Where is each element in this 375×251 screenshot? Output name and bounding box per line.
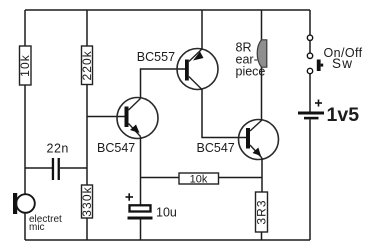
svg-text:10k: 10k [18, 54, 32, 77]
wire Q1 base [87, 116, 125, 118]
wire Q3 emitter down [261, 158, 263, 192]
svg-text:BC557: BC557 [137, 50, 175, 64]
svg-text:BC547: BC547 [197, 141, 235, 155]
wire switch top [309, 10, 311, 35]
transistor Q1 BC547 [117, 98, 158, 139]
svg-text:mic: mic [29, 222, 45, 233]
wire bottom rail [25, 239, 310, 241]
wire 10k feedback left [141, 177, 180, 179]
electret mic [13, 193, 35, 214]
label electret mic [29, 214, 62, 233]
wire Q2 collector down and to Q3 base [202, 90, 246, 138]
capacitor C1 22n [52, 158, 60, 180]
svg-text:220k: 220k [80, 50, 94, 80]
resistor R2 220k [80, 46, 94, 85]
svg-text:1v5: 1v5 [327, 104, 360, 126]
svg-text:3R3: 3R3 [254, 199, 268, 224]
resistor R1 10k [18, 46, 32, 85]
transistor Q2 BC557 [177, 49, 218, 90]
wire top rail [25, 9, 310, 11]
wire earpiece branch [261, 10, 263, 120]
label On/Off Sw [324, 46, 363, 71]
resistor R5 3R3 [254, 192, 268, 232]
svg-text:Sw: Sw [332, 56, 353, 71]
svg-text:10u: 10u [156, 206, 177, 220]
wire 220k top [86, 10, 88, 46]
wire 10u to bottom rail [140, 220, 142, 241]
wire Q1 collector up and to BC557 base [141, 69, 186, 98]
wire left rail upper [24, 10, 26, 46]
wire 3R3 to bottom rail [261, 232, 263, 240]
wire Q1 emitter down [140, 137, 142, 206]
svg-text:piece: piece [236, 65, 266, 79]
wire 22n right [60, 167, 87, 169]
svg-text:22n: 22n [47, 142, 69, 156]
wire 330k to bottom rail [86, 218, 88, 240]
capacitor C2 10u [126, 193, 153, 219]
wire battery to bottom rail [309, 119, 311, 240]
transistor Q3 BC547 [239, 120, 279, 160]
svg-text:10k: 10k [190, 174, 208, 186]
wire 220k to 330k [86, 85, 88, 186]
label 8R ear-piece [236, 41, 266, 79]
battery B1 [298, 100, 324, 120]
svg-text:330k: 330k [80, 186, 94, 216]
wire 10k feedback right [219, 177, 263, 179]
resistor R4 10k [179, 173, 219, 186]
earpiece 8R [257, 40, 267, 67]
wire switch to battery [309, 74, 311, 112]
svg-text:BC547: BC547 [97, 141, 135, 155]
wire 22n left [25, 167, 52, 169]
switch SW1 On/Off [307, 35, 323, 74]
wire Q2 emitter to top rail [201, 10, 203, 49]
resistor R3 330k [80, 185, 94, 218]
wire mic to bottom rail [24, 213, 26, 240]
wire left rail lower [24, 85, 26, 195]
